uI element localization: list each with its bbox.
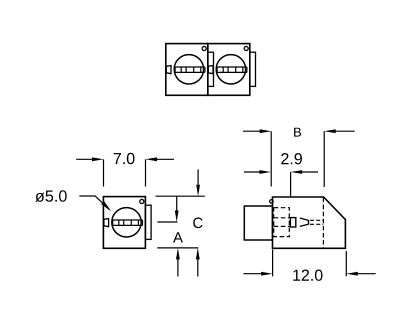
dimension C / A	[156, 169, 205, 276]
unit 1 (top view left)	[166, 44, 214, 96]
leader dia 5.0	[79, 196, 109, 209]
hidden slot lines	[274, 217, 291, 219]
label ø5.0	[35, 190, 66, 202]
label B	[294, 128, 301, 137]
side view group	[244, 197, 345, 248]
hidden rotor rectangle	[274, 208, 290, 237]
unit 2 (top view right)	[208, 44, 256, 96]
dimension B	[243, 131, 355, 187]
hidden screw axis lines	[310, 219, 323, 221]
mounting hole edge	[270, 200, 274, 204]
side body outline with chamfer	[273, 197, 346, 248]
label C	[193, 218, 202, 229]
label 7.0	[114, 153, 135, 164]
label A	[173, 232, 183, 242]
dimension 2.9	[244, 172, 318, 197]
hidden line vertical (chamfer plane)	[322, 198, 324, 249]
dimension 12.0	[243, 250, 375, 277]
label 2.9	[281, 153, 302, 164]
shaft block	[244, 206, 272, 240]
screw tip bar	[308, 220, 310, 225]
front view single unit	[103, 197, 151, 249]
label 12.0	[293, 270, 322, 281]
dimension 7.0	[76, 159, 174, 186]
screw collar	[290, 218, 295, 227]
screw taper cone	[300, 218, 309, 226]
